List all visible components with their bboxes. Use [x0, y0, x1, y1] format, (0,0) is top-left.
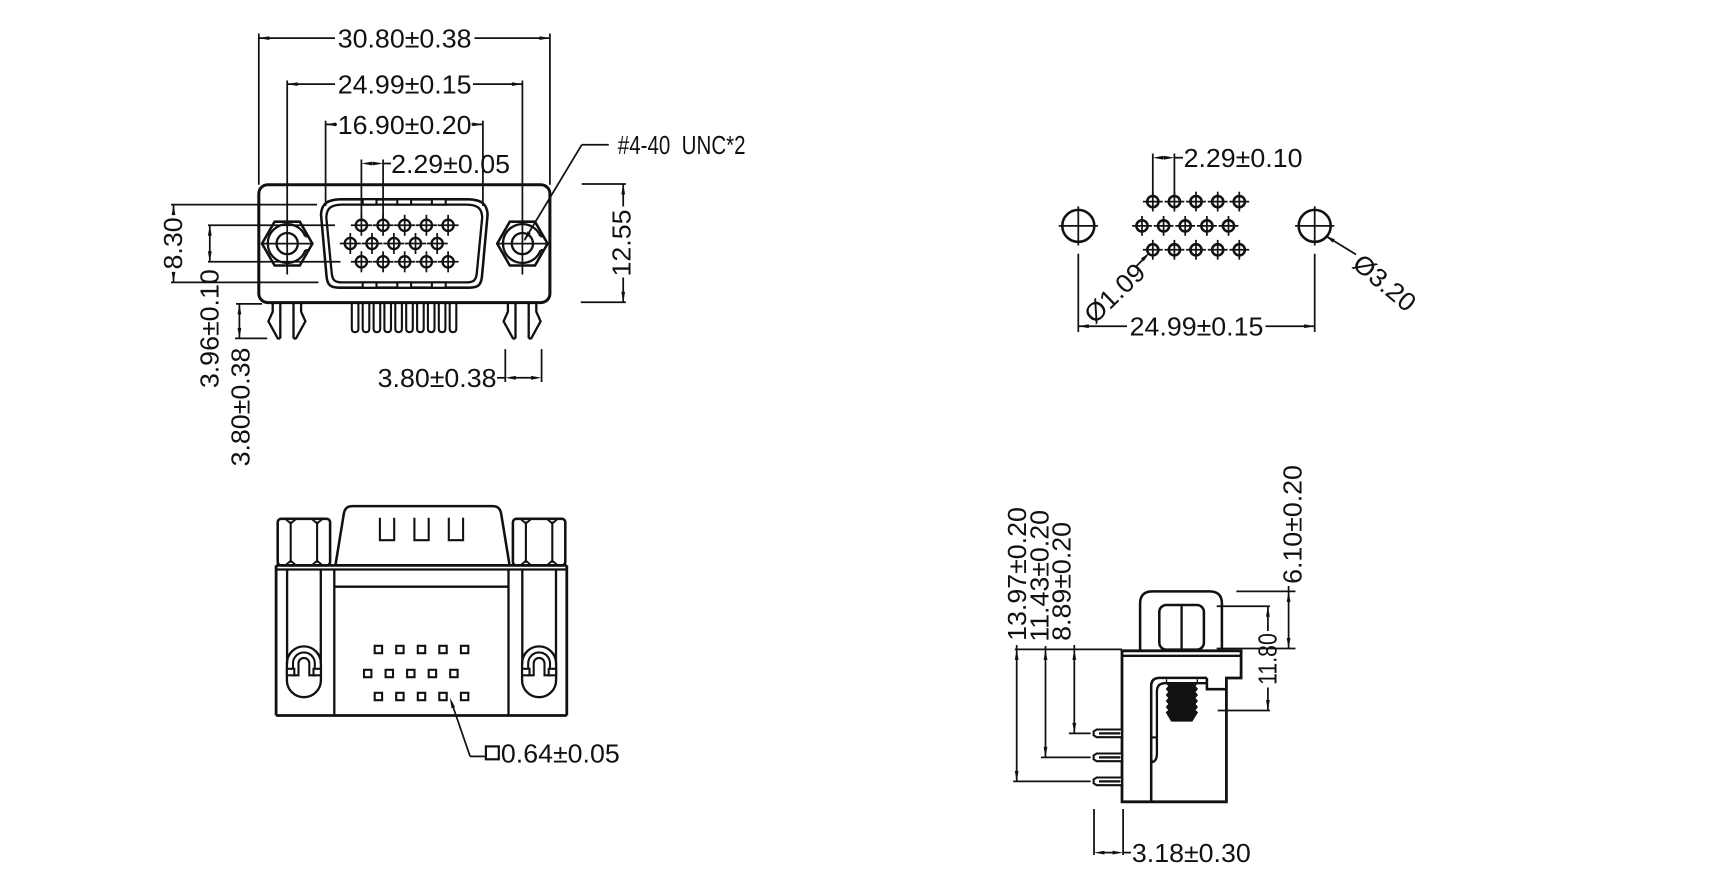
hex nut side view	[1159, 605, 1204, 650]
dimension 2.29±0.10 (hole pitch)	[1152, 154, 1154, 196]
jack-screw nut top view at x=539	[513, 519, 565, 566]
dimension 24.99±0.15 (screw spacing)	[287, 83, 335, 85]
shroud polarization tabs (3 top, 3 bottom)	[363, 199, 377, 204]
svg-text:8.89±0.20: 8.89±0.20	[1047, 522, 1077, 641]
body outline	[1122, 651, 1241, 802]
dimension 11.80 (hex to insert depth)	[1217, 605, 1270, 607]
dimension 30.80±0.38 (flange width)	[258, 34, 260, 185]
svg-text:3.80±0.38: 3.80±0.38	[378, 364, 497, 394]
svg-text:3.96±0.10: 3.96±0.10	[195, 269, 225, 388]
insulator block edges	[333, 570, 335, 716]
mounting hole right Ø3.20	[1295, 225, 1334, 227]
board-lock legs pair at x=522	[504, 303, 516, 339]
leader Ø3.20 to mounting hole	[1328, 237, 1357, 255]
datum line (flange face)	[1015, 648, 1122, 650]
shroud notches (3)	[380, 518, 394, 540]
top view of connector	[276, 506, 620, 768]
hex jack-screw nut at x=287.2	[262, 222, 312, 266]
PCB layout view (hole pattern)	[1059, 143, 1422, 341]
dimension 12.55 (flange height)	[582, 183, 626, 185]
svg-text:30.80±0.38: 30.80±0.38	[338, 24, 472, 54]
threaded insert (section, filled)	[1167, 683, 1198, 721]
dimension 11.43±0.20 to pin row 2	[1041, 756, 1091, 758]
dimension 24.99±0.15 (mounting hole spacing)	[1077, 254, 1079, 332]
hex jack-screw nut at x=522.4	[497, 222, 547, 266]
dimension 16.90±0.20 (shroud width)	[325, 121, 327, 206]
15 solder tail squares	[375, 646, 382, 653]
svg-text:24.99±0.15: 24.99±0.15	[1130, 312, 1264, 342]
svg-text:3.18±0.30: 3.18±0.30	[1132, 838, 1251, 868]
dimension 8.30 (shroud inner height)	[171, 204, 317, 206]
jack-screw nut top view at x=304	[278, 519, 330, 566]
board-lock slot side walls	[286, 570, 288, 664]
svg-text:11.80: 11.80	[1254, 633, 1284, 685]
D-shroud inner outline	[326, 205, 482, 283]
15 pin holes Ø1.09	[1143, 201, 1163, 203]
dimension 3.96±0.10 (pin row 1 to row 3)	[208, 224, 335, 226]
dimension 3.80±0.38 bottom (board-lock span)	[504, 349, 506, 382]
leader □0.64±0.05 (square pin size)	[451, 702, 470, 757]
shell step to body edge	[1207, 678, 1227, 689]
svg-text:0.64±0.05: 0.64±0.05	[501, 739, 620, 769]
dimension 8.89±0.20 to pin row 1	[1069, 732, 1091, 734]
svg-text:2.29±0.10: 2.29±0.10	[1184, 143, 1303, 173]
solder tines: 10 visible right-angle pins below flange	[352, 303, 359, 333]
svg-text:24.99±0.15: 24.99±0.15	[338, 70, 472, 100]
flange plate outline	[259, 185, 550, 303]
dimension 2.29±0.05 (pin pitch)	[360, 160, 362, 220]
dimension 3.18±0.30 (pin offset)	[1093, 809, 1095, 855]
thread callout #4-40 UNC*2 with leader to right nut	[582, 144, 609, 146]
screw center extension lines (24.99 dim)	[286, 81, 288, 275]
svg-text:12.55: 12.55	[607, 210, 637, 277]
board-lock legs pair at x=287	[268, 303, 280, 339]
side view (section)	[1002, 465, 1307, 868]
pin row 2	[1094, 754, 1122, 762]
body outline	[275, 565, 278, 715]
dimension 13.97±0.20 to pin row 3	[1013, 780, 1090, 782]
dimension 6.10±0.20 (housing height)	[1236, 590, 1295, 592]
svg-text:2.29±0.05: 2.29±0.05	[391, 149, 510, 179]
pin row 3	[1094, 778, 1122, 786]
svg-text:16.90±0.20: 16.90±0.20	[338, 110, 472, 140]
metal shell section (L profile)	[1151, 678, 1207, 802]
board-lock top view (keyhole) at x=539	[522, 646, 556, 697]
front view: DE-15 male connector, flange face	[159, 24, 746, 467]
dimension 3.80±0.38 left (flange to leg tip)	[236, 303, 262, 305]
svg-text:8.30: 8.30	[159, 217, 189, 269]
svg-text:6.10±0.20: 6.10±0.20	[1278, 465, 1308, 584]
screw housing outline	[1140, 591, 1222, 650]
board-lock top view (keyhole) at x=304	[287, 646, 321, 697]
svg-text:#4-40 UNC*2: #4-40 UNC*2	[618, 131, 746, 160]
D-shroud top view	[335, 506, 509, 565]
flange plate (double edge line)	[276, 564, 567, 567]
D-shroud outer outline	[321, 199, 488, 287]
svg-text:3.80±0.38: 3.80±0.38	[226, 348, 256, 467]
leader Ø1.09 to pin hole	[1136, 255, 1147, 266]
15 contact pins (3 rows of 5) with center crosshairs	[351, 224, 372, 226]
pin row 1	[1094, 730, 1122, 738]
mounting hole left Ø3.20	[1059, 225, 1098, 227]
flange seam line	[1122, 655, 1241, 657]
